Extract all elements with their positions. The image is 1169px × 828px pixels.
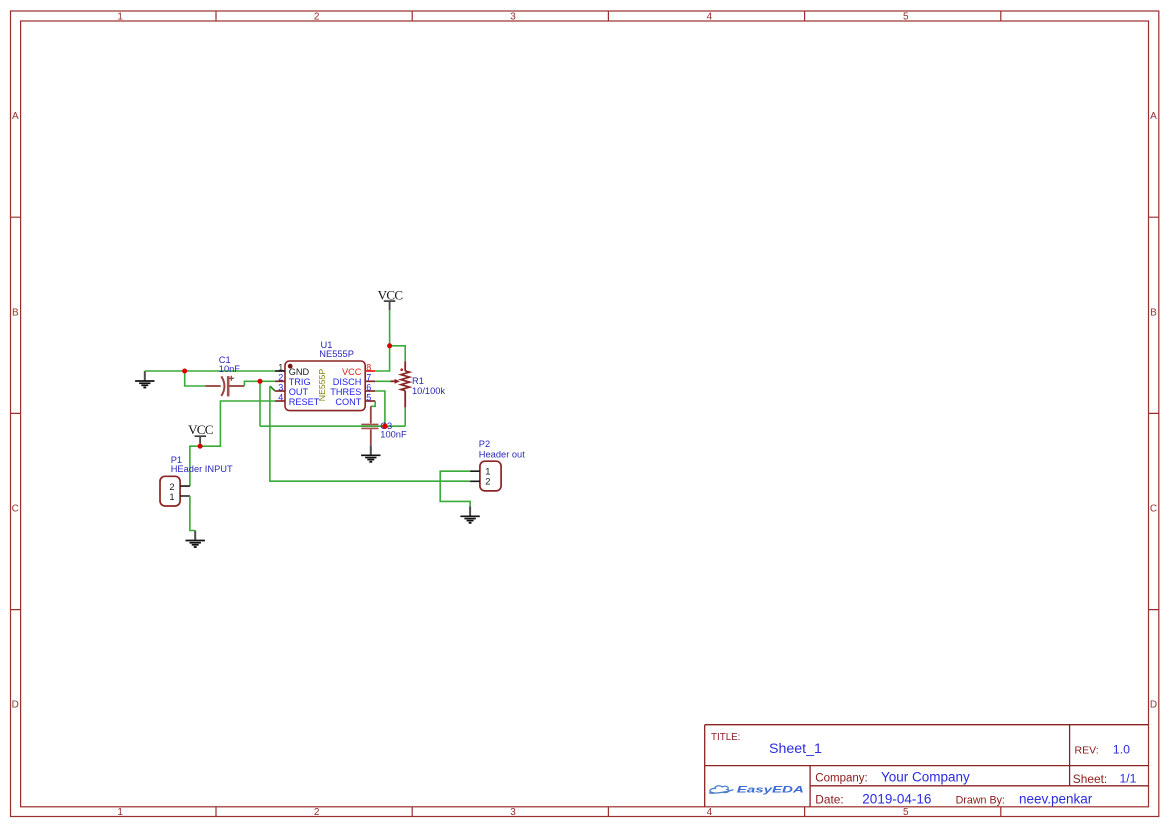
- svg-text:5: 5: [366, 392, 371, 402]
- svg-text:Header out: Header out: [479, 449, 525, 459]
- svg-text:1: 1: [278, 362, 283, 372]
- svg-text:5: 5: [903, 12, 909, 23]
- wire P1 pin1 to GND2: [190, 496, 195, 531]
- svg-text:REV:: REV:: [1075, 744, 1099, 756]
- svg-text:5: 5: [903, 807, 909, 818]
- svg-text:OUT: OUT: [289, 387, 309, 397]
- svg-text:A: A: [12, 111, 19, 122]
- wire OUT diagonal hook at pin3: [270, 386, 275, 391]
- svg-text:RESET: RESET: [289, 397, 320, 407]
- svg-text:6: 6: [366, 382, 371, 392]
- svg-text:D: D: [1150, 700, 1157, 711]
- svg-text:2019-04-16: 2019-04-16: [862, 792, 931, 807]
- U1 pin 5 CONT: [335, 392, 375, 407]
- svg-text:Drawn By:: Drawn By:: [956, 794, 1005, 806]
- svg-text:Your Company: Your Company: [881, 769, 970, 784]
- svg-text:1/1: 1/1: [1120, 772, 1137, 786]
- wire C1 to TRIG junction: [244, 381, 260, 386]
- svg-text:10nF: 10nF: [219, 364, 241, 374]
- svg-text:neev.penkar: neev.penkar: [1019, 792, 1093, 807]
- svg-text:TITLE:: TITLE:: [711, 732, 740, 743]
- junction dot VCC2: [198, 444, 203, 449]
- svg-text:NE555P: NE555P: [319, 349, 354, 359]
- svg-text:7: 7: [366, 372, 371, 382]
- svg-text:3: 3: [510, 807, 516, 818]
- svg-text:HEader INPUT: HEader INPUT: [171, 464, 233, 474]
- connector P1: [160, 476, 190, 506]
- svg-text:1.0: 1.0: [1113, 742, 1130, 756]
- svg-text:VCC: VCC: [342, 367, 362, 377]
- svg-text:DISCH: DISCH: [333, 377, 362, 387]
- U1 pin 7 DISCH: [333, 372, 375, 387]
- svg-text:C: C: [1150, 504, 1157, 515]
- connector P2: [470, 461, 501, 491]
- power VCC2 (above P1): [188, 422, 213, 446]
- svg-text:8: 8: [366, 362, 371, 372]
- label R1 10/100k: [412, 376, 445, 396]
- svg-text:Company:: Company:: [815, 772, 867, 784]
- label U1 NE555P: [319, 340, 354, 359]
- svg-text:CONT: CONT: [335, 397, 361, 407]
- wire VCC1 branch to R1 top: [390, 346, 406, 362]
- svg-text:VCC: VCC: [378, 287, 403, 302]
- wire OUT from pin3 down to P2 pin2: [270, 386, 470, 481]
- label P1 HEader INPUT: [171, 455, 233, 474]
- junction dot TRIG: [258, 379, 263, 384]
- wire THRES pin6 down to junction: [375, 391, 385, 426]
- svg-text:3: 3: [278, 382, 283, 392]
- svg-text:3: 3: [510, 12, 516, 23]
- wire DISCH to R1 wiper: [375, 380, 390, 382]
- resistor R1 (potentiometer): [391, 361, 410, 407]
- svg-text:D: D: [12, 700, 19, 711]
- ground GND3 (below C3): [361, 445, 380, 462]
- IC U1 NE555P body: [285, 361, 365, 411]
- label C1 10nF: [219, 355, 241, 374]
- U1 pin 1 GND: [275, 362, 309, 377]
- wire TRIG down to THRES net: [259, 381, 261, 426]
- U1 pin 6 THRES: [330, 382, 375, 397]
- junction dot THRES/C3: [382, 424, 387, 429]
- wire R1 bottom to THRES net: [404, 408, 406, 427]
- svg-text:A: A: [1150, 111, 1157, 122]
- wire THRES net horizontal: [260, 425, 405, 427]
- svg-text:100nF: 100nF: [380, 430, 407, 440]
- svg-text:VCC: VCC: [188, 422, 213, 437]
- power VCC1 (top): [378, 287, 403, 310]
- label C3 100nF: [380, 421, 407, 439]
- U1 pin 2 TRIG: [275, 372, 311, 387]
- capacitor C3: [361, 406, 378, 445]
- svg-text:2: 2: [485, 476, 490, 487]
- wire P2 pin1 to GND4: [440, 471, 470, 506]
- svg-text:2: 2: [278, 372, 283, 382]
- ground GND2 (below P1): [186, 531, 205, 548]
- svg-text:4: 4: [707, 12, 713, 23]
- wire GND net: ground to U1 pin1: [145, 370, 275, 372]
- label P2 Header out: [479, 439, 525, 459]
- svg-text:1: 1: [117, 807, 123, 818]
- svg-text:10/100k: 10/100k: [412, 386, 445, 396]
- svg-text:2: 2: [314, 807, 320, 818]
- U1 pin 3 OUT: [275, 382, 308, 397]
- svg-text:1: 1: [169, 491, 174, 502]
- junction dot GND/C1: [182, 369, 187, 374]
- svg-text:Sheet_1: Sheet_1: [769, 741, 822, 757]
- U1 pin 4 RESET: [275, 392, 320, 407]
- wire VCC1 down to pin8: [375, 310, 389, 371]
- wire C1 left leg down from junction: [185, 371, 206, 386]
- wire RESET from pin4 to VCC2 net: [190, 401, 275, 486]
- svg-text:P2: P2: [479, 439, 490, 449]
- svg-text:2: 2: [314, 12, 320, 23]
- svg-text:Sheet:: Sheet:: [1073, 772, 1107, 786]
- svg-text:THRES: THRES: [330, 387, 361, 397]
- ground GND4 (below P2): [460, 506, 479, 523]
- ground GND1 (left of C1): [135, 371, 154, 388]
- svg-text:EasyEDA: EasyEDA: [737, 784, 804, 794]
- svg-text:TRIG: TRIG: [289, 377, 311, 387]
- wire CONT pin5 hook to C3: [371, 401, 375, 406]
- junction dot VCC1: [387, 343, 392, 348]
- svg-text:4: 4: [278, 392, 283, 402]
- svg-text:GND: GND: [289, 367, 310, 377]
- svg-text:C: C: [12, 504, 19, 515]
- svg-text:1: 1: [117, 12, 123, 23]
- svg-text:B: B: [1150, 307, 1157, 318]
- svg-text:B: B: [12, 307, 19, 318]
- svg-text:Date:: Date:: [815, 792, 843, 806]
- svg-text:R1: R1: [412, 376, 424, 386]
- wire TRIG junction to U1 pin2: [260, 380, 275, 382]
- svg-text:4: 4: [707, 807, 713, 818]
- U1 pin 8 VCC: [342, 362, 375, 377]
- capacitor C1 (polarized): [205, 376, 244, 397]
